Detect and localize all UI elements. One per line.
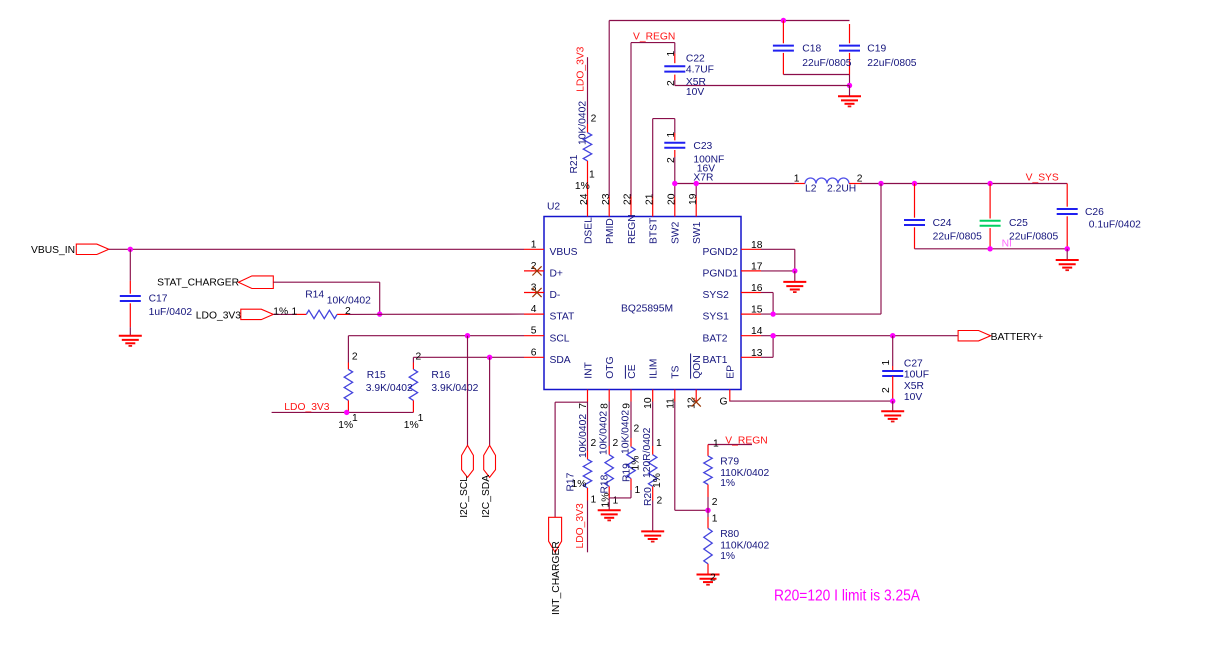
svg-text:INT: INT: [583, 361, 594, 378]
svg-text:10K/0402: 10K/0402: [621, 410, 632, 454]
svg-text:2: 2: [345, 306, 351, 317]
svg-text:NI: NI: [1002, 238, 1012, 249]
svg-text:2.2UH: 2.2UH: [827, 184, 856, 195]
svg-text:1%: 1%: [404, 420, 419, 431]
svg-text:0.1uF/0402: 0.1uF/0402: [1089, 219, 1141, 230]
svg-text:SW2: SW2: [671, 221, 682, 244]
svg-text:INT_CHARGER: INT_CHARGER: [551, 541, 562, 615]
svg-text:PGND1: PGND1: [703, 269, 739, 280]
svg-text:SCL: SCL: [550, 333, 570, 344]
svg-text:1: 1: [794, 173, 800, 184]
svg-text:10K/0402: 10K/0402: [599, 411, 610, 455]
svg-text:1%: 1%: [720, 478, 735, 489]
svg-text:D-: D-: [550, 290, 561, 301]
svg-text:1%: 1%: [572, 479, 587, 490]
svg-text:R20=120 I limit is 3.25A: R20=120 I limit is 3.25A: [774, 588, 920, 605]
svg-text:10V: 10V: [904, 392, 922, 403]
svg-text:C24: C24: [933, 218, 952, 229]
svg-text:1: 1: [666, 132, 677, 138]
svg-text:1%: 1%: [720, 551, 735, 562]
svg-text:1%: 1%: [601, 493, 612, 508]
svg-text:BAT2: BAT2: [703, 333, 728, 344]
svg-text:R14: R14: [305, 289, 324, 300]
svg-text:2: 2: [666, 80, 677, 86]
svg-text:17: 17: [751, 261, 763, 272]
svg-text:1: 1: [635, 485, 641, 496]
svg-text:C19: C19: [867, 44, 886, 55]
svg-text:1%: 1%: [575, 181, 590, 192]
svg-text:EP: EP: [726, 365, 737, 379]
svg-text:2: 2: [710, 573, 716, 584]
svg-text:22uF/0805: 22uF/0805: [1009, 232, 1059, 243]
svg-text:V_REGN: V_REGN: [633, 32, 675, 43]
svg-text:1%: 1%: [631, 456, 642, 471]
svg-text:X5R: X5R: [904, 381, 924, 392]
svg-text:R16: R16: [431, 370, 450, 381]
svg-text:2: 2: [591, 114, 597, 125]
svg-text:L2: L2: [805, 184, 817, 195]
svg-text:14: 14: [751, 326, 763, 337]
svg-text:19: 19: [688, 193, 699, 205]
svg-text:R20: R20: [643, 487, 654, 506]
svg-text:1uF/0402: 1uF/0402: [149, 307, 193, 318]
svg-text:STAT_CHARGER: STAT_CHARGER: [157, 277, 239, 288]
svg-text:10K/0402: 10K/0402: [577, 101, 588, 145]
svg-text:REGN: REGN: [627, 214, 638, 244]
svg-text:I2C_SCL: I2C_SCL: [459, 476, 470, 518]
svg-text:110K/0402: 110K/0402: [720, 541, 769, 552]
svg-text:D+: D+: [550, 269, 563, 280]
svg-text:10K/0402: 10K/0402: [327, 295, 371, 306]
svg-text:110K/0402: 110K/0402: [720, 468, 769, 479]
svg-text:LDO_3V3: LDO_3V3: [575, 46, 586, 91]
svg-text:1: 1: [292, 307, 298, 318]
svg-text:C26: C26: [1085, 207, 1104, 218]
svg-text:VBUS_IN: VBUS_IN: [31, 245, 75, 256]
svg-text:23: 23: [601, 193, 612, 205]
svg-text:SW1: SW1: [692, 221, 703, 244]
svg-text:1%: 1%: [338, 420, 353, 431]
svg-text:DSEL: DSEL: [583, 217, 594, 244]
svg-text:4.7UF: 4.7UF: [686, 64, 714, 75]
svg-text:QON: QON: [692, 355, 703, 378]
svg-text:20: 20: [667, 193, 678, 205]
svg-text:22uF/0805: 22uF/0805: [802, 58, 852, 69]
svg-text:21: 21: [644, 193, 655, 205]
svg-text:I2C_SDA: I2C_SDA: [481, 475, 492, 518]
svg-text:VBUS: VBUS: [550, 247, 578, 258]
svg-text:4: 4: [531, 304, 537, 315]
svg-text:1%: 1%: [273, 307, 288, 318]
svg-text:10V: 10V: [686, 87, 704, 98]
svg-text:TS: TS: [671, 365, 682, 378]
svg-text:10UF: 10UF: [904, 370, 929, 381]
svg-text:BQ25895M: BQ25895M: [621, 303, 673, 314]
svg-text:1: 1: [713, 439, 719, 450]
svg-text:2: 2: [857, 173, 863, 184]
svg-text:C27: C27: [904, 358, 923, 369]
svg-text:1: 1: [591, 495, 597, 506]
svg-text:SYS2: SYS2: [703, 290, 730, 301]
svg-text:120R/0402: 120R/0402: [642, 427, 653, 478]
svg-text:OTG: OTG: [605, 356, 616, 378]
svg-text:C23: C23: [693, 141, 712, 152]
svg-text:LDO_3V3: LDO_3V3: [196, 310, 241, 321]
svg-text:2: 2: [634, 424, 640, 435]
svg-text:LDO_3V3: LDO_3V3: [575, 503, 586, 548]
svg-text:18: 18: [751, 240, 763, 251]
svg-text:5: 5: [531, 326, 537, 337]
svg-text:1: 1: [656, 438, 662, 449]
svg-text:22uF/0805: 22uF/0805: [933, 232, 983, 243]
svg-text:C17: C17: [149, 294, 168, 305]
svg-text:22uF/0805: 22uF/0805: [867, 58, 917, 69]
svg-text:C22: C22: [686, 53, 705, 64]
svg-text:3.9K/0402: 3.9K/0402: [431, 383, 478, 394]
svg-text:PMID: PMID: [605, 218, 616, 244]
svg-text:10K/0402: 10K/0402: [578, 414, 589, 458]
svg-text:ILIM: ILIM: [649, 359, 660, 379]
svg-text:13: 13: [751, 348, 763, 359]
svg-text:SDA: SDA: [550, 355, 571, 366]
svg-text:24: 24: [579, 193, 590, 205]
svg-text:2: 2: [613, 438, 619, 449]
svg-text:PGND2: PGND2: [703, 247, 739, 258]
svg-text:2: 2: [666, 157, 677, 163]
svg-text:CE: CE: [627, 364, 638, 378]
svg-text:BAT1: BAT1: [703, 355, 728, 366]
svg-text:1: 1: [613, 496, 619, 507]
svg-text:R15: R15: [367, 370, 386, 381]
svg-text:1: 1: [589, 170, 595, 181]
svg-text:1: 1: [666, 51, 677, 57]
svg-text:2: 2: [657, 496, 663, 507]
svg-text:16: 16: [751, 283, 763, 294]
svg-text:2: 2: [352, 352, 358, 363]
svg-text:V_REGN: V_REGN: [725, 436, 767, 447]
svg-text:R18: R18: [600, 474, 611, 493]
svg-text:2: 2: [712, 497, 718, 508]
svg-text:22: 22: [623, 193, 634, 205]
svg-text:15: 15: [751, 305, 763, 316]
svg-text:2: 2: [881, 387, 892, 393]
svg-text:R21: R21: [569, 154, 580, 173]
svg-text:V_SYS: V_SYS: [1026, 172, 1059, 183]
svg-text:1%: 1%: [652, 473, 663, 488]
svg-text:C25: C25: [1009, 218, 1028, 229]
svg-text:C18: C18: [802, 44, 821, 55]
svg-text:R79: R79: [720, 457, 739, 468]
svg-text:STAT: STAT: [550, 312, 575, 323]
svg-text:2: 2: [416, 352, 422, 363]
svg-text:2: 2: [591, 438, 597, 449]
svg-text:1: 1: [531, 239, 537, 250]
svg-text:BATTERY+: BATTERY+: [991, 332, 1044, 343]
svg-text:U2: U2: [547, 202, 560, 213]
svg-text:3.9K/0402: 3.9K/0402: [366, 383, 413, 394]
svg-text:G: G: [720, 396, 728, 407]
svg-text:1: 1: [712, 514, 718, 525]
svg-text:BTST: BTST: [649, 217, 660, 244]
svg-text:1: 1: [881, 360, 892, 366]
svg-text:SYS1: SYS1: [703, 312, 730, 323]
svg-text:R80: R80: [720, 529, 739, 540]
svg-text:6: 6: [531, 347, 537, 358]
svg-text:LDO_3V3: LDO_3V3: [284, 402, 329, 413]
